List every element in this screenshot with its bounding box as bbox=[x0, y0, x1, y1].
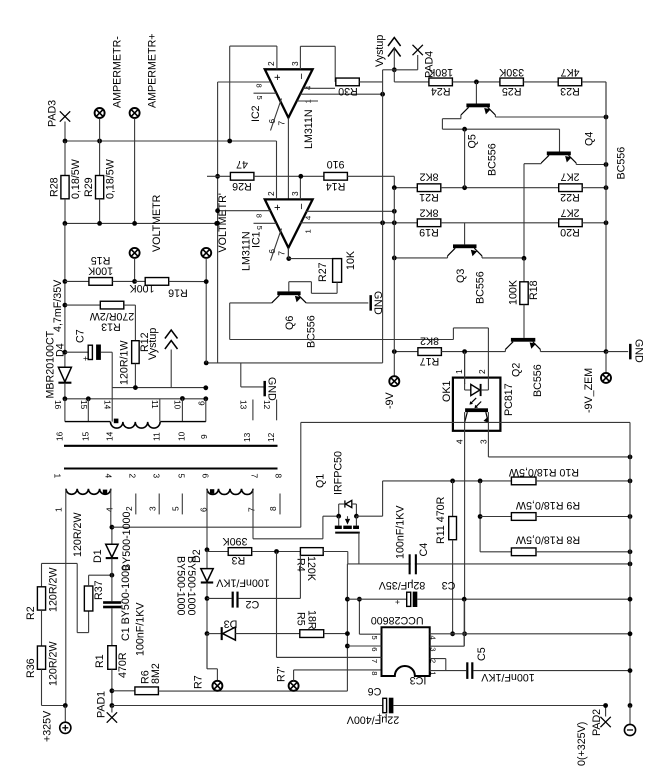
pad PAD2 bbox=[605, 706, 607, 717]
svg-text:4: 4 bbox=[454, 439, 464, 444]
transformer T1 pri coil1 bbox=[66, 489, 111, 495]
wire pin1 down rail bbox=[65, 489, 67, 706]
wire IC2 pin3 lead bbox=[299, 46, 301, 69]
svg-text:BY500-1000: BY500-1000 bbox=[185, 556, 197, 615]
svg-text:100K: 100K bbox=[87, 265, 113, 277]
junction node (606,117) bbox=[604, 115, 609, 120]
svg-text:Q3: Q3 bbox=[455, 269, 467, 283]
stub IC2 pin5 bbox=[254, 92, 277, 94]
capacitor C7 bbox=[65, 351, 88, 353]
resistor R5 bbox=[300, 630, 324, 638]
junction node (207,633.6) bbox=[205, 631, 210, 636]
wire net AMPERMETR bus y141 bbox=[65, 140, 277, 142]
junction node (476.4,81.9) bbox=[474, 80, 479, 85]
wire IC1 pin7 node bbox=[286, 256, 291, 261]
svg-text:R36: R36 bbox=[25, 658, 37, 678]
diode D4 bbox=[58, 367, 71, 382]
svg-text:BC556: BC556 bbox=[616, 147, 628, 180]
svg-text:LM311N: LM311N bbox=[303, 109, 315, 149]
svg-text:8: 8 bbox=[273, 474, 283, 479]
wire R24-R25 bbox=[452, 81, 500, 83]
svg-text:1: 1 bbox=[454, 369, 464, 374]
svg-text:7: 7 bbox=[249, 474, 259, 479]
svg-text:390K: 390K bbox=[222, 535, 248, 547]
svg-text:PAD2: PAD2 bbox=[591, 709, 603, 736]
svg-text:MBR20100CT: MBR20100CT bbox=[45, 330, 57, 398]
svg-text:Q2: Q2 bbox=[510, 363, 522, 377]
wire Vystup arrow link bbox=[170, 350, 172, 388]
svg-text:C7: C7 bbox=[75, 329, 87, 343]
svg-text:2: 2 bbox=[266, 191, 276, 196]
svg-text:6: 6 bbox=[200, 474, 210, 479]
resistor R15 bbox=[65, 280, 89, 282]
svg-text:R5: R5 bbox=[294, 612, 306, 626]
wire y387 out rail bbox=[112, 387, 206, 389]
wire R36 to bus bbox=[41, 669, 43, 705]
junction node (524,258.3) bbox=[522, 256, 527, 261]
junction node (338.7,516.2) bbox=[336, 514, 341, 519]
svg-text:C2: C2 bbox=[246, 598, 260, 610]
svg-text:5: 5 bbox=[255, 226, 264, 230]
svg-text:Vystup: Vystup bbox=[147, 328, 159, 360]
svg-text:16: 16 bbox=[55, 431, 65, 441]
svg-text:R28: R28 bbox=[49, 177, 61, 197]
svg-text:BC556: BC556 bbox=[487, 143, 499, 176]
wire OK1 pin3 bbox=[487, 412, 489, 457]
svg-text:Q6: Q6 bbox=[284, 316, 296, 330]
stub pin3 bbox=[158, 494, 160, 515]
wire R5 to IC3 pin5 node bbox=[324, 633, 348, 635]
svg-text:8K2: 8K2 bbox=[419, 171, 438, 183]
junction node (394.3,187.7) bbox=[392, 185, 397, 190]
wire IC1 plus input bbox=[218, 210, 271, 212]
resistor R29 bbox=[99, 141, 101, 176]
wire pin4 to D1 bbox=[110, 489, 112, 528]
svg-text:16: 16 bbox=[53, 400, 63, 410]
svg-text:GND: GND bbox=[632, 339, 644, 363]
transistor Q3 bbox=[464, 223, 466, 245]
wire R37 top bbox=[88, 575, 90, 586]
svg-text:R8 R18/0,5W: R8 R18/0,5W bbox=[515, 534, 580, 546]
svg-text:C6: C6 bbox=[368, 685, 382, 697]
svg-text:Vystup: Vystup bbox=[374, 35, 386, 67]
wire Q3 collector bbox=[447, 256, 449, 258]
svg-text:100nF/1KV: 100nF/1KV bbox=[215, 577, 269, 589]
junction node (347.4,599.2) bbox=[345, 597, 350, 602]
svg-text:R3: R3 bbox=[232, 554, 246, 566]
stub IC2 pin4 bbox=[303, 87, 335, 89]
svg-text:4: 4 bbox=[103, 474, 113, 479]
wire R9 right bbox=[536, 516, 630, 518]
transformer T1 sec coil bbox=[111, 422, 161, 428]
svg-text:1: 1 bbox=[54, 507, 64, 512]
svg-text:4: 4 bbox=[429, 636, 438, 640]
transformer T1 sec pin15 lead bbox=[87, 399, 89, 422]
svg-text:R16: R16 bbox=[168, 287, 188, 299]
transformer T1 pri coil1 polarity bbox=[103, 490, 107, 494]
svg-text:4,7mF/35V: 4,7mF/35V bbox=[52, 279, 64, 332]
svg-text:8M2: 8M2 bbox=[150, 663, 162, 684]
resistor R18 bbox=[523, 258, 525, 282]
resistor R26 bbox=[207, 175, 230, 177]
svg-text:+: + bbox=[272, 74, 284, 80]
svg-text:0(+325V): 0(+325V) bbox=[576, 722, 588, 766]
optocoupler OK1 led bbox=[464, 383, 466, 390]
resistor R10 bbox=[511, 477, 536, 485]
transistor Q1 leads bbox=[338, 516, 340, 525]
resistor R14 bbox=[324, 172, 348, 180]
arrow Vystup2 bbox=[388, 38, 401, 47]
svg-text:BC556: BC556 bbox=[532, 364, 544, 397]
svg-text:IRFPC50: IRFPC50 bbox=[333, 451, 345, 495]
transformer T1 sec left bar bbox=[65, 421, 111, 423]
svg-text:OK1: OK1 bbox=[441, 381, 453, 402]
junction node (64.9,281.4) bbox=[63, 279, 68, 284]
wire IC3 pin5 feed bbox=[358, 599, 360, 634]
junction node (394.3,211.3) bbox=[392, 209, 397, 214]
wire OK1 pin1 feed bbox=[464, 352, 466, 384]
svg-text:22μF/400V: 22μF/400V bbox=[346, 714, 399, 726]
svg-text:R30: R30 bbox=[338, 85, 358, 97]
junction node (205.8,387.8) bbox=[203, 385, 208, 390]
wire R23 corner bbox=[582, 81, 606, 83]
svg-text:180K: 180K bbox=[427, 66, 453, 78]
resistor R20 bbox=[559, 219, 583, 227]
junction node (630,480.9) bbox=[628, 479, 633, 484]
svg-text:2: 2 bbox=[429, 659, 438, 663]
svg-text:5: 5 bbox=[171, 506, 181, 511]
svg-text:7: 7 bbox=[277, 251, 287, 256]
svg-text:7: 7 bbox=[277, 121, 287, 126]
capacitor C5 bbox=[466, 662, 468, 679]
resistor R2 bbox=[37, 587, 45, 610]
resistor R36 bbox=[41, 610, 43, 646]
arrow Vystup bbox=[165, 330, 178, 339]
svg-text:R26: R26 bbox=[232, 180, 252, 192]
ic IC3 box bbox=[382, 627, 430, 676]
transistor Q1 channel bars bbox=[335, 526, 342, 529]
wire Q6 collector loop bbox=[230, 302, 272, 304]
wire IC2 pin2 lead bbox=[276, 46, 278, 69]
transformer T1 sec polarity bbox=[114, 419, 119, 424]
svg-text:+325V: +325V bbox=[42, 710, 54, 742]
resistor R27 bbox=[288, 258, 290, 260]
svg-text:6: 6 bbox=[370, 647, 379, 651]
wire Q2 emitter bbox=[539, 349, 541, 351]
junction node (207,549.8) bbox=[205, 547, 210, 552]
svg-text:15: 15 bbox=[79, 400, 89, 410]
junction node (347.4,646) bbox=[345, 644, 350, 649]
svg-text:4: 4 bbox=[105, 507, 115, 512]
transistor Q4 bbox=[547, 152, 571, 156]
pad +325V bbox=[64, 706, 66, 723]
svg-text:1: 1 bbox=[304, 229, 313, 233]
junction node (464.6,187.7) bbox=[462, 185, 467, 190]
wire x347 rail bbox=[346, 564, 348, 691]
junction node (276.5,551.5) bbox=[274, 549, 279, 554]
wire IC3 pin3 out bbox=[430, 645, 465, 647]
svg-text:R10 R18/0,5W: R10 R18/0,5W bbox=[508, 466, 579, 478]
wire ladder x480 bbox=[479, 481, 481, 552]
pad PAD3 bbox=[60, 111, 70, 121]
svg-text:PAD1: PAD1 bbox=[96, 691, 108, 718]
diode D3 bbox=[207, 633, 223, 635]
svg-text:GND: GND bbox=[371, 291, 383, 315]
svg-text:8: 8 bbox=[370, 671, 379, 675]
wire IC1 pin1 lead bbox=[300, 222, 417, 224]
wire q5q3 link bbox=[464, 129, 466, 188]
junction node (206.2,281.6) bbox=[204, 279, 209, 284]
wire C3 to pin3 bbox=[463, 599, 465, 646]
stub pin13 bbox=[252, 400, 254, 421]
wire Q4 emitter bbox=[575, 163, 577, 165]
svg-text:4K7: 4K7 bbox=[560, 66, 579, 78]
svg-text:UCC28600: UCC28600 bbox=[371, 614, 424, 626]
svg-text:470R: 470R bbox=[117, 652, 129, 678]
transformer T1 sec pin10 lead bbox=[181, 399, 183, 422]
junction node (64.9,305.1) bbox=[63, 303, 68, 308]
wire PAD4 link bbox=[394, 69, 417, 71]
svg-text:5: 5 bbox=[176, 474, 186, 479]
junction node (630,705.5) bbox=[628, 703, 633, 708]
svg-text:330K: 330K bbox=[498, 66, 524, 78]
svg-text:12: 12 bbox=[266, 432, 276, 442]
wire IC2 pin7 output bbox=[287, 118, 289, 259]
svg-text:10K: 10K bbox=[345, 250, 357, 270]
wire Q5 base bbox=[475, 82, 477, 104]
svg-text:6: 6 bbox=[267, 119, 277, 124]
wire x382 down bbox=[382, 223, 384, 363]
wire y363 bbox=[206, 362, 382, 364]
junction node (606,164.5) bbox=[604, 162, 609, 167]
capacitor C4 bbox=[409, 554, 411, 574]
svg-text:9: 9 bbox=[199, 434, 209, 439]
svg-text:0,18/5W: 0,18/5W bbox=[70, 158, 82, 199]
svg-text:PC817: PC817 bbox=[503, 383, 515, 416]
optocoupler OK1 box bbox=[453, 378, 501, 431]
svg-text:120R/2W: 120R/2W bbox=[48, 567, 60, 612]
wire IC1 pin2 lead bbox=[276, 141, 278, 199]
stub pin12 bbox=[276, 400, 278, 421]
svg-text:R2: R2 bbox=[25, 606, 37, 620]
svg-text:2K7: 2K7 bbox=[560, 171, 579, 183]
svg-text:14: 14 bbox=[102, 400, 112, 410]
svg-text:D1: D1 bbox=[92, 549, 104, 563]
transformer T1 core line 1 bbox=[64, 445, 278, 447]
wire IC2 out y94 bbox=[300, 93, 382, 95]
svg-text:6: 6 bbox=[267, 249, 277, 254]
svg-text:PAD3: PAD3 bbox=[47, 100, 59, 127]
pad VOLTMETR bbox=[130, 248, 140, 258]
wire left rail x65 bbox=[64, 223, 66, 367]
svg-text:120R/2W: 120R/2W bbox=[48, 641, 60, 686]
svg-text:4: 4 bbox=[304, 216, 313, 220]
svg-text:3: 3 bbox=[429, 647, 438, 651]
wire R4 right bbox=[323, 551, 348, 553]
transformer T1 pri coil2 polarity bbox=[210, 489, 214, 493]
svg-text:C1 BY500-1000: C1 BY500-1000 bbox=[120, 565, 132, 641]
junction node (111.9,690.8) bbox=[110, 688, 115, 693]
svg-text:120R/1W: 120R/1W bbox=[119, 340, 131, 385]
svg-text:BC556: BC556 bbox=[306, 315, 318, 348]
svg-text:-9V: -9V bbox=[384, 391, 396, 409]
svg-text:C3: C3 bbox=[442, 579, 456, 591]
resistor R13 bbox=[65, 304, 100, 306]
svg-text:11: 11 bbox=[150, 400, 160, 409]
op-amp IC2 triangle bbox=[265, 69, 313, 117]
junction node (99.6,141) bbox=[97, 139, 102, 144]
resistor R22 bbox=[559, 184, 583, 192]
junction node (217.6,223.3) bbox=[215, 221, 220, 226]
resistor R11 bbox=[452, 481, 454, 517]
ground pin12 bbox=[240, 363, 242, 387]
junction node (356.4,516.2) bbox=[354, 514, 359, 519]
pad R7 bbox=[206, 634, 208, 669]
resistor R3 bbox=[207, 551, 228, 553]
wire Q5 emitter bbox=[494, 115, 496, 117]
wire Q4 base bbox=[559, 129, 561, 151]
resistor R16 bbox=[135, 280, 146, 282]
junction node (88.3,398.8) bbox=[86, 396, 91, 401]
wire voltmetr2 rail bbox=[217, 82, 219, 363]
wire R2 jog bbox=[41, 563, 43, 586]
optocoupler OK1 light arrows bbox=[470, 398, 476, 404]
junction node (480.1,516.5) bbox=[478, 514, 483, 519]
wire voltmetr pad rail bbox=[205, 282, 207, 363]
stub IC1 pin6 bbox=[271, 229, 282, 261]
svg-text:8K2: 8K2 bbox=[419, 206, 438, 218]
wire bottom bus left bbox=[112, 705, 383, 707]
wire Q6 emitter bbox=[306, 302, 368, 304]
svg-text:VOLTMETR: VOLTMETR bbox=[151, 194, 163, 252]
transformer T1 sec pin11 lead bbox=[159, 399, 161, 422]
svg-text:Q4: Q4 bbox=[584, 132, 596, 146]
wire pin7 to Q1 drain bbox=[252, 489, 254, 539]
svg-text:BY500-1000: BY500-1000 bbox=[174, 556, 186, 615]
resistor R17 bbox=[394, 351, 418, 353]
svg-text:R17: R17 bbox=[420, 355, 440, 367]
transformer T1 sec pin14 lead bbox=[111, 388, 113, 422]
svg-text:270R/2W: 270R/2W bbox=[89, 310, 134, 322]
junction node (606,187.7) bbox=[604, 185, 609, 190]
transformer T1 sec pin16 lead bbox=[64, 399, 66, 422]
junction node (464.2,599.2) bbox=[462, 597, 467, 602]
svg-text:BY500-1000: BY500-1000 bbox=[121, 512, 133, 571]
junction node (630,456.9) bbox=[628, 455, 633, 460]
junction node (606,351.6) bbox=[604, 349, 609, 354]
wire OK1 pin2 loop bbox=[487, 328, 489, 384]
svg-text:−: − bbox=[296, 73, 308, 79]
wire R8 right bbox=[536, 551, 630, 553]
pad AMPERMETR+ bbox=[130, 108, 140, 118]
ground GND q6 bbox=[369, 295, 372, 311]
wire y481 rail bbox=[383, 480, 512, 482]
junction node (464.6,633.8) bbox=[462, 631, 467, 636]
svg-text:18R: 18R bbox=[305, 610, 317, 630]
junction node (464.6,351.6) bbox=[462, 349, 467, 354]
svg-text:IC2: IC2 bbox=[250, 105, 262, 122]
junction node (182.4,398.5) bbox=[180, 396, 185, 401]
resistor R23 bbox=[558, 78, 582, 86]
junction node (135.4,387.6) bbox=[133, 385, 138, 390]
wire x394 rail bbox=[393, 70, 395, 82]
transformer T1 pri coil2 bbox=[207, 489, 253, 495]
pad AMPERMETR- bbox=[95, 108, 105, 118]
svg-text:1: 1 bbox=[429, 671, 438, 675]
svg-text:R29: R29 bbox=[83, 177, 95, 197]
junction node (134.6,223.4) bbox=[132, 221, 137, 226]
svg-text:IC3: IC3 bbox=[410, 674, 427, 686]
svg-text:AMPERMETR+: AMPERMETR+ bbox=[147, 33, 159, 108]
svg-text:3: 3 bbox=[151, 474, 161, 479]
wire Q1 source lead bbox=[356, 515, 382, 517]
wire y398 rail bbox=[65, 398, 206, 400]
svg-text:47: 47 bbox=[236, 158, 248, 170]
svg-text:R1: R1 bbox=[94, 654, 106, 668]
svg-text:12: 12 bbox=[262, 400, 272, 410]
transistor Q1 gate bar bbox=[335, 532, 360, 534]
svg-text:R21: R21 bbox=[419, 191, 439, 203]
junction node (347.4,633.6) bbox=[345, 631, 350, 636]
junction node (207,598.4) bbox=[205, 596, 210, 601]
pad R7b bbox=[289, 681, 299, 691]
pad minus bbox=[629, 706, 631, 725]
pad VOLTMETR2 bbox=[201, 248, 211, 258]
junction node (630,599.2) bbox=[628, 597, 633, 602]
svg-text:15: 15 bbox=[81, 431, 91, 441]
wire Q4 collector bbox=[540, 162, 542, 165]
op-amp IC1 triangle bbox=[265, 199, 313, 247]
svg-text:R27: R27 bbox=[317, 262, 329, 282]
wire x394 down bbox=[393, 188, 395, 352]
svg-text:120R/2W: 120R/2W bbox=[72, 512, 84, 557]
stub pin5 bbox=[181, 494, 183, 515]
svg-text:7: 7 bbox=[247, 507, 257, 512]
junction node (394.3,257.9) bbox=[392, 256, 397, 261]
junction node (217.6,176.3) bbox=[215, 174, 220, 179]
pad PAD1 bbox=[111, 706, 113, 713]
transistor Q1 bulk arrow bbox=[345, 519, 350, 525]
junction node (111.9,575.2) bbox=[110, 573, 115, 578]
svg-text:+: + bbox=[272, 204, 284, 210]
resistor R24 bbox=[429, 78, 453, 86]
wire IC3 pin7 feed bbox=[277, 656, 382, 658]
svg-text:8: 8 bbox=[254, 84, 263, 88]
svg-text:1: 1 bbox=[52, 474, 62, 479]
svg-text:Q1: Q1 bbox=[315, 474, 327, 488]
wire Q1 gate lead bbox=[358, 533, 360, 564]
junction node (64.9,398.8) bbox=[63, 396, 68, 401]
wire Q5 collector bbox=[460, 115, 462, 119]
svg-text:100nF/1KV: 100nF/1KV bbox=[480, 671, 534, 683]
resistor R6 bbox=[112, 690, 135, 692]
svg-text:−: − bbox=[296, 203, 308, 209]
transformer T1 core line 2 bbox=[64, 467, 278, 469]
svg-text:3: 3 bbox=[148, 506, 158, 511]
wire Q3 emitter bbox=[481, 256, 483, 258]
resistor R37 bbox=[84, 586, 93, 611]
resistor R1 bbox=[108, 646, 117, 670]
junction node (464.6,129.2) bbox=[462, 127, 467, 132]
junction node (394.3,222.8) bbox=[392, 220, 397, 225]
junction node (452.6,633.8) bbox=[450, 631, 455, 636]
wire out jog bbox=[383, 69, 395, 71]
junction node (605.6,705.5) bbox=[603, 703, 608, 708]
svg-text:8: 8 bbox=[254, 214, 263, 218]
stub IC2 pin6 bbox=[271, 99, 282, 131]
optocoupler OK1 transistor bbox=[465, 408, 488, 412]
junction node (99.6,223.4) bbox=[97, 221, 102, 226]
